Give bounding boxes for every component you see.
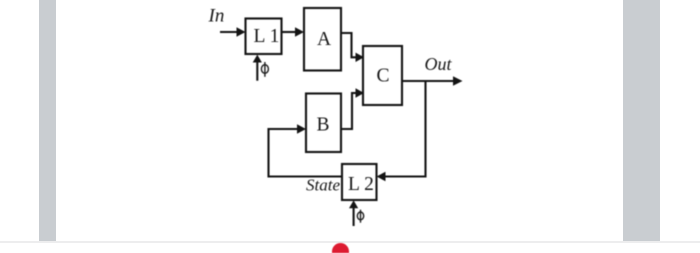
bottom divider line: [0, 241, 700, 243]
svg-text:C: C: [377, 66, 390, 87]
phi symbol at L1: [261, 65, 268, 74]
arrowhead into L2: [377, 172, 386, 181]
clock wire phi to L1: [256, 61, 258, 81]
wire L2 feedback to B: [269, 129, 343, 177]
arrowhead phi into L1: [253, 55, 262, 63]
block B: [306, 94, 341, 153]
wire A to C: [341, 33, 356, 57]
svg-text:L 1: L 1: [254, 26, 280, 47]
arrowhead into B: [297, 124, 306, 133]
wire L1 to A: [282, 31, 298, 33]
clock wire phi to L2: [353, 208, 355, 227]
wire C to Out: [402, 80, 454, 82]
left gray sidebar: [39, 0, 56, 241]
svg-text:A: A: [317, 29, 331, 50]
svg-text:Out: Out: [425, 54, 453, 74]
wire Out down to L2: [385, 81, 426, 177]
wire B to C: [341, 93, 356, 129]
arrowhead into L1: [237, 27, 246, 36]
block C: [363, 46, 402, 105]
right gray sidebar: [623, 0, 660, 241]
latch L1: [246, 19, 282, 55]
red dot (partial, bottom center): [332, 243, 349, 253]
latch L2: [342, 164, 377, 200]
arrowhead into C lower: [356, 88, 365, 97]
phi symbol at L2: [357, 212, 363, 220]
svg-text:In: In: [208, 6, 225, 27]
svg-text:L 2: L 2: [348, 174, 374, 195]
svg-text:B: B: [317, 115, 330, 136]
arrowhead into A: [295, 27, 304, 36]
arrowhead into C upper: [356, 53, 365, 62]
svg-text:State: State: [306, 175, 340, 194]
arrowhead Out: [453, 76, 463, 85]
wire In to L1: [220, 31, 239, 33]
block A: [304, 8, 341, 71]
arrowhead phi into L2: [349, 200, 358, 208]
